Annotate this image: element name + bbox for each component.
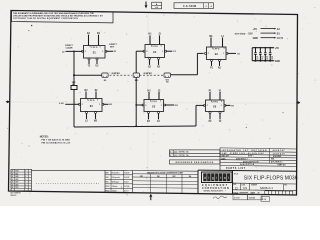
- svg-text:+5V: +5V: [275, 48, 280, 50]
- svg-text:10-7-9: 10-7-9: [124, 191, 129, 193]
- svg-text:PIN 14 ON EACH IC IS +5V: PIN 14 ON EACH IC IS +5V: [42, 142, 71, 145]
- svg-text:.01: .01: [261, 59, 263, 61]
- pin stub J1 of E2: [159, 35, 161, 44]
- svg-text:9: 9: [224, 48, 225, 50]
- wire tab to bus: [73, 90, 75, 128]
- svg-text:9: 9: [160, 101, 161, 103]
- flip-flop E4: [81, 99, 103, 112]
- svg-text:J.Rudz: J.Rudz: [112, 186, 118, 188]
- svg-text:GND: GND: [275, 61, 280, 63]
- svg-text:3: 3: [25, 173, 26, 175]
- svg-text:9: 9: [97, 100, 98, 102]
- pin stub M1 of E3: [210, 38, 212, 48]
- handwritten mark: [213, 196, 227, 199]
- wire E11 to E3 input: [171, 74, 198, 76]
- top fold arrow: [145, 2, 147, 7]
- svg-text:1262: 1262: [15, 182, 19, 184]
- svg-text:C O R P O R A T I O N: C O R P O R A T I O N: [202, 187, 229, 190]
- svg-text:A PL M036-0-1: A PL M036-0-1: [271, 160, 283, 163]
- svg-text:SIX FLIP-FLOPS M036: SIX FLIP-FLOPS M036: [244, 176, 298, 182]
- svg-text:R2: R2: [166, 82, 168, 84]
- clear bus: [74, 126, 196, 127]
- parts list left cells: [169, 150, 220, 157]
- svg-text:C4: C4: [271, 56, 273, 59]
- pin stub R2 of E2: [157, 57, 159, 59]
- right fold mark: [296, 101, 300, 104]
- reference designation cell: [169, 160, 220, 164]
- svg-text:SHEET: SHEET: [251, 193, 256, 195]
- svg-text:C FF D: C FF D: [152, 46, 159, 48]
- svg-text:(2) TYPE 74: (2) TYPE 74: [174, 151, 189, 154]
- svg-text:1: 1: [223, 53, 224, 55]
- pin stub N1 of E3: [218, 59, 220, 61]
- pin stub S2 of E2: [148, 57, 150, 59]
- wire clear chain vertical: [73, 51, 75, 85]
- svg-text:9: 9: [87, 100, 88, 102]
- svg-text:TRANSISTOR & DIODE CONVERSION: TRANSISTOR & DIODE CONVERSION CHART: [147, 171, 185, 174]
- svg-text:10-7-69: 10-7-69: [124, 186, 129, 188]
- pin stub R2 of E4: [85, 92, 87, 99]
- svg-text:T.Holt: T.Holt: [112, 190, 117, 193]
- parts list right table: [220, 148, 297, 149]
- svg-text:NUMBER: NUMBER: [251, 184, 257, 186]
- pin stub S2 of E4: [95, 92, 97, 99]
- svg-text:0: 0: [25, 171, 26, 173]
- wire E2 input: [136, 50, 144, 52]
- svg-text:6: 6: [25, 184, 26, 186]
- svg-text:C-E-500M: C-E-500M: [183, 5, 196, 8]
- svg-text:C2,T1: C2,T1: [277, 38, 284, 40]
- pin stub F2 of E5: [157, 111, 159, 113]
- svg-text:2: 2: [170, 152, 171, 154]
- svg-text:a: a: [224, 176, 226, 180]
- wire to jumper E9: [74, 74, 102, 76]
- svg-text:1269: 1269: [15, 184, 19, 186]
- svg-text:d: d: [204, 176, 206, 180]
- DEC logo box: [202, 172, 233, 183]
- svg-text:1: 1: [102, 51, 103, 53]
- svg-text:1: 1: [221, 105, 222, 107]
- pin stub K2 of E5: [147, 111, 149, 113]
- svg-text:D·199: D·199: [234, 197, 240, 199]
- svg-text:10/6/69: 10/6/69: [249, 197, 257, 199]
- svg-text:0: 0: [25, 179, 26, 181]
- svg-text:PIN 7 ON EACH IC IS GND: PIN 7 ON EACH IC IS GND: [42, 138, 71, 141]
- title block frame: [198, 170, 297, 171]
- paper speckle: [7, 5, 316, 203]
- svg-text:.01: .01: [271, 59, 273, 61]
- svg-text:COPYRIGHT 1969 BY DIGITAL EQUI: COPYRIGHT 1969 BY DIGITAL EQUIPMENT CORP…: [13, 17, 78, 20]
- svg-text:DWG QTY: DWG QTY: [222, 156, 231, 158]
- wire E3 out to K1: [227, 52, 236, 54]
- svg-text:PART NO.: PART NO.: [278, 163, 287, 166]
- jumper lug E10: [133, 73, 139, 77]
- capacitor C3: [264, 48, 266, 53]
- conversion chart: [132, 170, 134, 192]
- svg-text:0: 0: [25, 187, 26, 189]
- left fold mark: [6, 101, 10, 104]
- svg-text:PARTS LIST: PARTS LIST: [226, 167, 246, 170]
- pin stub L2 of E4: [85, 111, 87, 113]
- svg-text:MUL: MUL: [271, 159, 274, 161]
- pin stub L1 of E3: [222, 38, 224, 48]
- svg-text:1: 1: [162, 51, 163, 53]
- svg-text:.01: .01: [256, 59, 258, 61]
- pin stub H2 of E5: [148, 92, 150, 100]
- print code box: [261, 197, 269, 202]
- svg-text:NOTES:: NOTES:: [40, 136, 49, 138]
- wire E1 out to D1: [106, 50, 113, 52]
- svg-text:1: 1: [161, 105, 162, 107]
- svg-text:4.0: 4.0: [155, 6, 158, 9]
- svg-text:.01: .01: [266, 59, 268, 61]
- pin stub T2 of E1: [88, 58, 90, 60]
- svg-text:C1: C1: [256, 57, 258, 59]
- capacitor C1: [255, 48, 257, 53]
- svg-text:R.Staffen: R.Staffen: [112, 172, 120, 175]
- svg-text:M036-0-1: M036-0-1: [260, 186, 273, 190]
- capacitor C2: [259, 48, 261, 53]
- svg-text:9: 9: [211, 101, 212, 103]
- svg-text:10-6-69: 10-6-69: [124, 173, 129, 175]
- svg-text:1001610: 1001610: [273, 153, 286, 155]
- svg-text:10-6-9: 10-6-9: [124, 182, 129, 184]
- flip-flop E3: [207, 47, 227, 60]
- svg-text:DRN: DRN: [106, 173, 109, 175]
- svg-text:CLEAR: CLEAR: [66, 47, 73, 50]
- wire E6 out: [225, 104, 230, 106]
- svg-text:-15V: -15V: [248, 32, 253, 35]
- wire bus to E5 input: [136, 104, 143, 106]
- top small box: [152, 2, 162, 9]
- flip-flop E6: [206, 100, 225, 112]
- svg-text:t: t: [220, 176, 221, 180]
- flip-flop E5: [144, 100, 164, 112]
- pin stub P2 of E6: [209, 111, 211, 113]
- pin stub T2 of E6: [219, 111, 221, 113]
- wire E10 down to bus: [135, 77, 137, 126]
- size/code/number row: [233, 182, 298, 185]
- svg-text:9: 9: [221, 101, 222, 103]
- date stamp boxes: [233, 195, 248, 200]
- svg-text:C3: C3: [266, 57, 268, 59]
- capacitor bank rails: [252, 47, 272, 49]
- svg-text:CS: CS: [243, 186, 247, 190]
- wire E4 out: [103, 103, 108, 105]
- svg-text:TITLE: TITLE: [234, 173, 238, 175]
- svg-text:(2) TYPE 74: (2) TYPE 74: [174, 154, 189, 157]
- wire J2 to E1: [66, 50, 83, 52]
- pin stub V1 of E6: [219, 92, 221, 100]
- top drawing number strip: [174, 3, 214, 9]
- svg-text:CHK: CHK: [106, 177, 109, 179]
- svg-text:PROJ: PROJ: [106, 186, 110, 188]
- svg-text:1276: 1276: [15, 187, 19, 189]
- pin stub U2 of E1: [96, 58, 98, 60]
- sheet squares strip: [264, 191, 266, 195]
- svg-text:PROD: PROD: [106, 191, 110, 193]
- svg-text:INTEGRATED CKT. DEC7474N: INTEGRATED CKT. DEC7474N: [222, 149, 267, 152]
- pin stub D1 of E1: [98, 35, 100, 46]
- signature block: [104, 170, 106, 192]
- svg-text:g: g: [212, 176, 214, 180]
- svg-text:10-6-69: 10-6-69: [124, 177, 129, 179]
- svg-text:NOTE 1: NOTE 1: [248, 156, 254, 158]
- svg-text:2: 2: [170, 155, 171, 157]
- svg-text:C FF D: C FF D: [212, 102, 219, 104]
- svg-text:C FF D: C FF D: [91, 47, 98, 49]
- notice box: [12, 11, 114, 23]
- junction node: [73, 51, 75, 53]
- svg-text:9: 9: [161, 46, 162, 48]
- jumper lug E11: [164, 73, 171, 77]
- svg-text:9: 9: [150, 101, 151, 103]
- svg-text:GND: GND: [253, 37, 259, 40]
- svg-text:C FF D: C FF D: [88, 100, 95, 102]
- dashed jumper wire 2: [139, 74, 163, 76]
- wire E5 out: [165, 104, 175, 106]
- wire bus up to E6 input: [195, 105, 197, 126]
- svg-text:6: 6: [25, 176, 26, 178]
- pin stub H1 of E2: [149, 35, 151, 44]
- sheet border: [9, 11, 298, 196]
- svg-text:ENG: ENG: [106, 182, 109, 184]
- svg-text:6624747: 6624747: [273, 149, 286, 152]
- svg-text:REFERENCE DESIGNATION: REFERENCE DESIGNATION: [176, 161, 214, 164]
- svg-text:OF: OF: [258, 193, 260, 195]
- dashed jumper wire 1: [110, 74, 132, 76]
- svg-text:C FF D: C FF D: [213, 49, 220, 51]
- svg-text:D-MU-M036-0-1: D-MU-M036-0-1: [236, 159, 248, 161]
- flip-flop E2: [145, 45, 165, 58]
- svg-text:DESCRIPTION: DESCRIPTION: [240, 164, 255, 166]
- svg-text:CAP. .01MFD 100V +80-20% DISC: CAP. .01MFD 100V +80-20% DISC: [222, 152, 265, 155]
- svg-text:DEC FORM NO: DEC FORM NO: [11, 193, 22, 195]
- svg-text:9: 9: [212, 48, 213, 50]
- svg-text:C FF D: C FF D: [151, 101, 158, 103]
- svg-text:3: 3: [25, 182, 26, 184]
- flip-flop E1: [84, 46, 106, 59]
- svg-text:E.Kopcak: E.Kopcak: [112, 177, 120, 179]
- pin stub E1 of E1: [88, 35, 90, 46]
- svg-text:9: 9: [151, 46, 152, 48]
- revision strip: [32, 169, 106, 171]
- svg-text:W.Hogan: W.Hogan: [112, 182, 120, 184]
- svg-text:9: 9: [100, 47, 101, 49]
- wire H2 to E4: [65, 103, 79, 105]
- svg-text:1255: 1255: [15, 179, 19, 181]
- pin stub P1 of E3: [210, 59, 212, 61]
- jumper lug E9: [102, 73, 108, 77]
- bottom fold arrow: [150, 196, 152, 200]
- svg-text:9: 9: [90, 47, 91, 49]
- capacitor C4: [269, 48, 271, 53]
- svg-text:+5V: +5V: [253, 28, 258, 31]
- pin stub M2 of E4: [94, 111, 96, 113]
- svg-text:JUMPER: JUMPER: [111, 73, 120, 75]
- svg-text:DESCRIPTION: DESCRIPTION: [243, 161, 259, 163]
- pin stub P1 of E6: [209, 92, 211, 100]
- revision table: [11, 169, 32, 191]
- svg-text:1: 1: [99, 104, 100, 106]
- svg-text:C2: C2: [261, 57, 263, 59]
- pin stub J2 of E5: [158, 92, 160, 100]
- svg-text:NOT USED: NOT USED: [235, 33, 246, 35]
- svg-text:JUMPER: JUMPER: [143, 73, 152, 75]
- wire E2 out to F1: [166, 50, 173, 52]
